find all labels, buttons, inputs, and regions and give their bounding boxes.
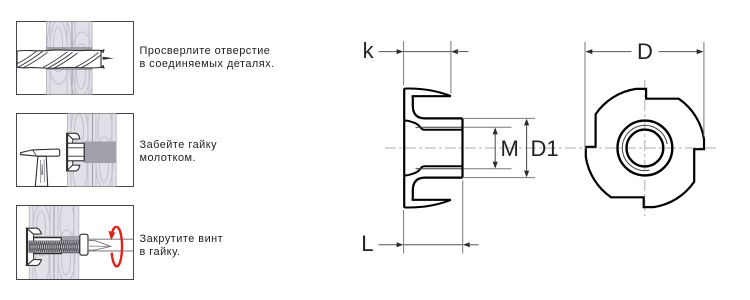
step box 2 frame	[17, 114, 134, 187]
dimension k	[363, 38, 469, 94]
instruction text step 3	[140, 233, 224, 260]
screw thread in nut step 3	[29, 241, 80, 252]
hammer step 2	[21, 149, 60, 186]
dimension D1	[464, 118, 559, 177]
step box 1 frame	[17, 22, 134, 95]
installed t-nut step 3	[27, 228, 62, 266]
red rotation arrow step 3	[108, 227, 122, 266]
side view bottom claw	[404, 200, 451, 208]
top view bore circle	[627, 130, 664, 167]
top view thread arc	[622, 125, 667, 170]
side view flange inner edge and barrel outer bottom	[413, 178, 463, 200]
t-nut being driven step 2	[67, 133, 84, 171]
svg-text:D: D	[637, 39, 653, 64]
dimension L	[361, 181, 478, 256]
wood boards step 1	[46, 12, 94, 104]
side view thread major line top	[416, 126, 463, 128]
svg-text:k: k	[363, 38, 375, 63]
dimension D	[585, 39, 704, 149]
side view flange face	[403, 88, 405, 207]
drill bit step 1	[17, 50, 114, 68]
wood boards step 2	[67, 106, 117, 192]
side view top claw	[404, 89, 451, 97]
svg-text:D1: D1	[531, 136, 559, 161]
instruction text step 2	[140, 139, 218, 166]
side view barrel end	[461, 118, 463, 177]
side view bore flare and minor line top	[405, 120, 463, 129]
side view flange inner edge and barrel outer top	[413, 96, 463, 118]
screwdriver step 3	[88, 239, 133, 251]
instruction text step 1	[140, 45, 275, 72]
side view bore flare and minor line bottom	[405, 166, 463, 175]
svg-text:M: M	[501, 136, 519, 161]
side view thread major line bottom	[416, 168, 463, 170]
step box 3 frame	[17, 206, 134, 280]
screw head step 3	[80, 234, 88, 255]
hole band step 3	[29, 236, 80, 254]
hole band step 2	[84, 142, 117, 164]
wood boards step 3	[29, 200, 80, 286]
top view flange outline with claws	[586, 89, 704, 207]
top view barrel circle	[618, 121, 673, 176]
side view centerline	[385, 147, 717, 149]
drilled hole band step 1	[46, 47, 93, 70]
top view vertical centerline	[644, 80, 646, 216]
dimension M	[464, 127, 519, 169]
svg-text:L: L	[361, 231, 373, 256]
